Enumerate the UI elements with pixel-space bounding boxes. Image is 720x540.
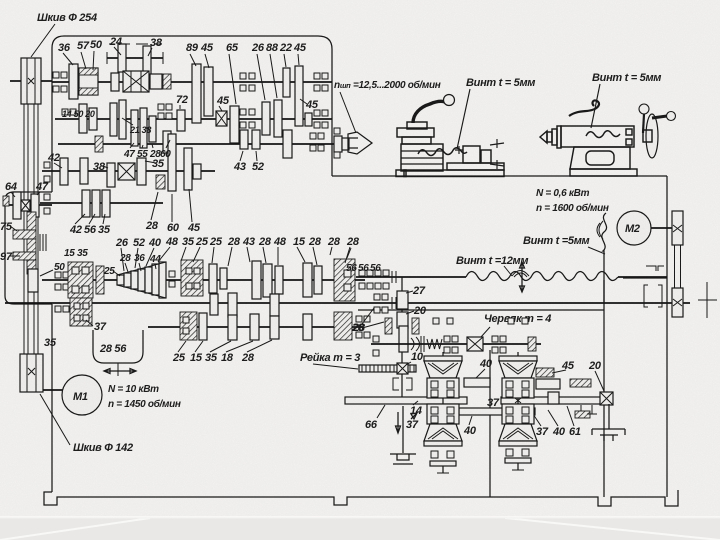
small gear right shaft IV — [193, 164, 201, 179]
gears 28 28 right — [303, 263, 312, 297]
rack bar — [359, 365, 416, 372]
leader to pulley 142 — [40, 394, 70, 445]
hatch block left lower — [13, 252, 36, 260]
shaft IV bearing squares — [44, 162, 50, 168]
feed gearbox left bulge outline — [5, 192, 52, 304]
fork double arrow — [104, 369, 136, 374]
vertical worm shaft left — [32, 217, 34, 280]
tailstock upper body — [561, 126, 634, 147]
shaft stub into pulley — [10, 80, 52, 82]
left foot — [396, 170, 406, 177]
shaft VIII hatched block — [180, 312, 197, 340]
gear 89 — [192, 64, 201, 123]
spindle gear 43 — [240, 130, 248, 149]
spindle nose steps — [334, 136, 342, 152]
input shaft lower-left — [5, 204, 52, 206]
motor shaft M1 to pulley — [43, 389, 63, 391]
wall bracket hooks — [646, 266, 664, 271]
quill steps — [547, 132, 552, 142]
shaft VII mid gears — [210, 294, 218, 315]
shaft I right bearing hatch — [163, 74, 171, 89]
body slide lines — [401, 151, 443, 164]
machine right wall — [666, 176, 668, 497]
norton cone outline — [117, 262, 166, 298]
gear 22 — [283, 68, 290, 97]
sleeve after clutch — [150, 74, 162, 89]
input clutch box — [21, 200, 30, 211]
upper counter shaft — [107, 57, 163, 59]
leader to pulley 254 — [31, 24, 55, 57]
gear 38 shaft IV — [80, 158, 88, 184]
machine bed line — [332, 175, 667, 177]
tower half-nut left — [424, 352, 462, 473]
cross slide screw wavy — [418, 148, 467, 156]
spring arcs on vertical screw — [597, 221, 603, 239]
gear 27 vertical — [397, 291, 408, 309]
gear 20 vertical — [397, 312, 408, 328]
tool holder block — [463, 146, 480, 163]
gear 36 upper — [143, 46, 151, 88]
shaft I — [52, 81, 332, 83]
apron bar 3 — [501, 397, 601, 404]
lever ball — [444, 95, 455, 106]
machine left wall — [51, 304, 53, 492]
tower half-nut right — [499, 352, 537, 470]
knob lever — [643, 114, 644, 133]
shaft VIII bearing squares — [356, 316, 362, 322]
tee bearings under bar3 — [575, 411, 590, 418]
spindle right gear — [283, 130, 292, 158]
worm right bearing squares — [492, 336, 498, 342]
centerline cross — [698, 282, 717, 318]
gear on worm shaft — [373, 336, 379, 342]
worm drive shaft — [371, 343, 541, 345]
gear 72 — [177, 110, 185, 131]
band diagonal right — [505, 518, 720, 540]
tower shaft top bearing squares — [433, 318, 439, 324]
double arrow through nut — [520, 262, 525, 292]
apron input vertical shaft — [401, 277, 403, 364]
driven pulley — [672, 288, 683, 317]
motor M1 circle — [62, 375, 102, 415]
gear 38b shaft IV — [107, 163, 115, 187]
belt lines — [23, 104, 25, 354]
shaft IV — [42, 170, 215, 172]
wheel hub — [643, 130, 652, 142]
band top edge line — [0, 517, 720, 519]
screw nut tick — [455, 146, 463, 154]
hatch brackets on vertical shaft — [385, 318, 392, 334]
gears 14 50 20 on shaft II — [62, 109, 68, 115]
leader lines top labels — [63, 47, 299, 104]
gear 28 after cone — [169, 271, 175, 277]
back gear 60 tall — [168, 134, 176, 191]
leader to cross screw — [457, 89, 470, 149]
gear 47 input — [31, 194, 39, 217]
spindle left bearing hatch — [95, 136, 103, 152]
counter shaft end marks — [107, 52, 163, 64]
tailstock screw link — [623, 277, 667, 279]
feed rod bearing squares — [374, 294, 380, 300]
handwheel disc — [646, 114, 658, 158]
spindle chuck cone — [348, 132, 372, 154]
quill center cone — [540, 131, 547, 143]
input bearing hatch — [3, 196, 9, 206]
clutch shaft IV — [118, 163, 135, 180]
leader — [504, 266, 512, 276]
carriage mid plate — [402, 137, 431, 144]
overload clutch hatched — [334, 259, 355, 301]
carriage top plate — [397, 128, 434, 137]
shaft VIII gears — [199, 313, 207, 340]
feed reverse clutch sleeve — [68, 262, 93, 298]
crank handle — [652, 116, 667, 118]
small gear VI — [220, 268, 227, 289]
half-nut arcs on lead screw — [512, 271, 529, 278]
gear 24 — [118, 44, 126, 72]
clutch block hatched — [181, 260, 203, 296]
spindle right bearing squares — [334, 128, 340, 134]
pinion shaft foot — [390, 454, 416, 464]
M2 pulley — [672, 211, 683, 245]
machine bottom with feet — [44, 490, 678, 506]
lock bolts — [626, 129, 632, 135]
gear 40 between towers — [464, 378, 490, 387]
vertical bevel sleeve — [399, 326, 408, 352]
small gear shaft I — [111, 73, 119, 91]
gear 61 — [548, 392, 559, 404]
worm shaft bearing squares — [444, 336, 450, 342]
lead screw wavy thread section vint t=12 — [466, 272, 618, 281]
motor M2 circle — [617, 211, 651, 245]
knob ball — [639, 104, 649, 114]
spindle gear 60 — [163, 131, 171, 153]
leaders feed top row — [121, 247, 350, 271]
clamp lever curved — [569, 100, 599, 116]
right bracket support — [592, 404, 625, 441]
shaft VII gears left — [70, 298, 92, 326]
spindle gears 47 55 28 — [131, 110, 138, 146]
lever arm — [413, 101, 445, 123]
belt lines M2 — [674, 245, 676, 288]
quill screw wavy — [586, 131, 620, 138]
headstock casing outline top — [52, 36, 332, 192]
gear 88 — [274, 100, 282, 137]
right bearing squares — [314, 73, 320, 79]
gear 26 — [262, 102, 270, 135]
leader to quill screw — [591, 84, 600, 128]
pinion shaft lower — [401, 374, 403, 397]
tool post handle bottom — [490, 160, 504, 169]
gears 42 56 35 shaft V — [82, 190, 90, 217]
tool post handle top — [490, 139, 504, 148]
overload spring — [427, 339, 442, 349]
saddle mid wall — [489, 350, 491, 497]
rack pinion — [397, 363, 408, 374]
slide gray bottom band — [0, 518, 720, 540]
gears 28 48 — [252, 261, 261, 299]
gear 50 feed — [28, 269, 38, 292]
gear on VI — [209, 264, 217, 293]
shaft V — [40, 202, 163, 204]
mid bearing squares shaft II — [240, 73, 246, 79]
hatch block 45 — [536, 368, 554, 377]
tailstock lower body — [570, 147, 630, 169]
pulley Shkiv 142 — [20, 354, 43, 392]
spindle shaft III — [58, 143, 349, 145]
shift fork U bracket — [93, 330, 143, 363]
shaft I bearing squares — [53, 72, 59, 78]
leader to spindle — [340, 92, 356, 133]
apron switch rod — [358, 309, 604, 311]
spindle gear 52 — [252, 130, 260, 149]
right lower step — [447, 163, 504, 170]
norton cone gears — [117, 275, 124, 285]
output bearing squares top row — [359, 270, 365, 276]
back gear 45 tall — [184, 148, 192, 190]
shaft VIII clutch hatched — [334, 312, 352, 340]
wall bearing hatch — [96, 266, 104, 294]
gear 45 — [204, 67, 213, 116]
feed shaft VIII — [148, 326, 362, 328]
shaft II — [55, 118, 332, 120]
pinion shaft brackets — [393, 378, 412, 390]
gear 42 shaft IV — [60, 158, 68, 185]
bevel mesh arcs — [411, 336, 424, 352]
countershaft centerline dashes — [109, 43, 162, 45]
tailstock base — [570, 169, 637, 176]
carriage base band — [404, 170, 504, 177]
hatch block 20 — [570, 379, 591, 387]
hatch block left upper — [27, 212, 36, 230]
lever pedestal — [407, 122, 427, 129]
worm shaft end hatch — [528, 337, 536, 351]
small clutch shaft II — [216, 111, 227, 126]
friction clutch pack 57/50 — [79, 68, 98, 95]
lead screw right part to wall — [618, 276, 667, 278]
leader to vertical screw — [588, 247, 605, 254]
band diagonal left — [0, 518, 150, 540]
saddle bar 66 — [345, 397, 467, 404]
M2 shaft — [651, 227, 672, 229]
pulley Shkiv 254 — [21, 58, 41, 104]
gear 45 right — [295, 66, 303, 126]
hatch block shaft IV — [156, 175, 165, 189]
gear mid — [275, 266, 283, 294]
apron right wall — [603, 280, 605, 497]
gear 65 — [230, 106, 239, 143]
apron bar 2 — [459, 408, 535, 415]
gear 35 shaft IV — [137, 158, 146, 185]
lead screw straight left part — [356, 276, 466, 278]
body window — [586, 151, 614, 165]
gear 64 input — [13, 192, 21, 219]
fork stem — [117, 363, 119, 376]
carriage body — [401, 144, 443, 171]
feed rod long line — [5, 302, 690, 304]
gear 36 on shaft I — [69, 64, 78, 99]
gear 21/38 tall on shaft II — [110, 103, 117, 136]
shaft V bearing squares — [44, 194, 50, 200]
down arrow on pinion shaft — [396, 412, 401, 433]
jaw clutch on shaft I — [123, 71, 149, 92]
feed shaft VI — [42, 279, 365, 281]
vertical tailstock screw with spring waves — [602, 213, 607, 303]
worm (chervyak) box — [467, 337, 483, 351]
